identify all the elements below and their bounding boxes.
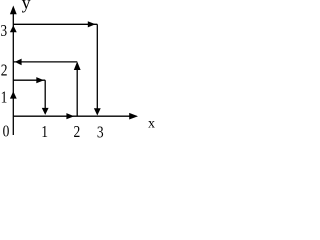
wire (1,0)->(2,0) arrowhead on x-axis: [66, 113, 74, 119]
wire (3,3)->(3,0) vertical x=3: [96, 24, 98, 114]
svg-text:3: 3: [97, 124, 104, 139]
wire (0,2)->(0,3) arrowhead on y-axis: [10, 25, 17, 32]
arrowhead at (1,1): [36, 77, 44, 83]
x-axis: [13, 115, 137, 117]
y-axis arrowhead: [10, 6, 17, 15]
wire (2,2)->(0,2) horizontal y=2: [13, 61, 77, 63]
svg-text:0: 0: [3, 123, 10, 139]
wire (0,1)->(1,1) horizontal y=1: [13, 79, 45, 81]
arrowhead at (1,0): [42, 108, 49, 115]
wire (0,3)->(3,3) horizontal y=3: [13, 23, 97, 25]
wire (0,0)->(0,1) arrowhead on y-axis: [10, 91, 17, 98]
svg-text:1: 1: [1, 89, 8, 106]
y-axis: [12, 8, 14, 135]
arrowhead at (0,2): [15, 59, 22, 66]
arrowhead at (3,0): [94, 108, 101, 115]
svg-text:2: 2: [1, 62, 8, 79]
svg-text:y: y: [22, 0, 31, 13]
arrowhead at (3,3): [88, 21, 96, 27]
wire (2,0)->(2,2) vertical x=2: [76, 63, 78, 116]
svg-text:2: 2: [74, 124, 81, 139]
x-axis arrowhead: [129, 113, 138, 120]
arrowhead at (2,2): [74, 62, 81, 71]
svg-text:3: 3: [0, 23, 7, 40]
svg-text:1: 1: [41, 124, 48, 139]
wire (1,1)->(1,0) vertical x=1: [44, 80, 46, 113]
svg-text:x: x: [148, 117, 155, 132]
